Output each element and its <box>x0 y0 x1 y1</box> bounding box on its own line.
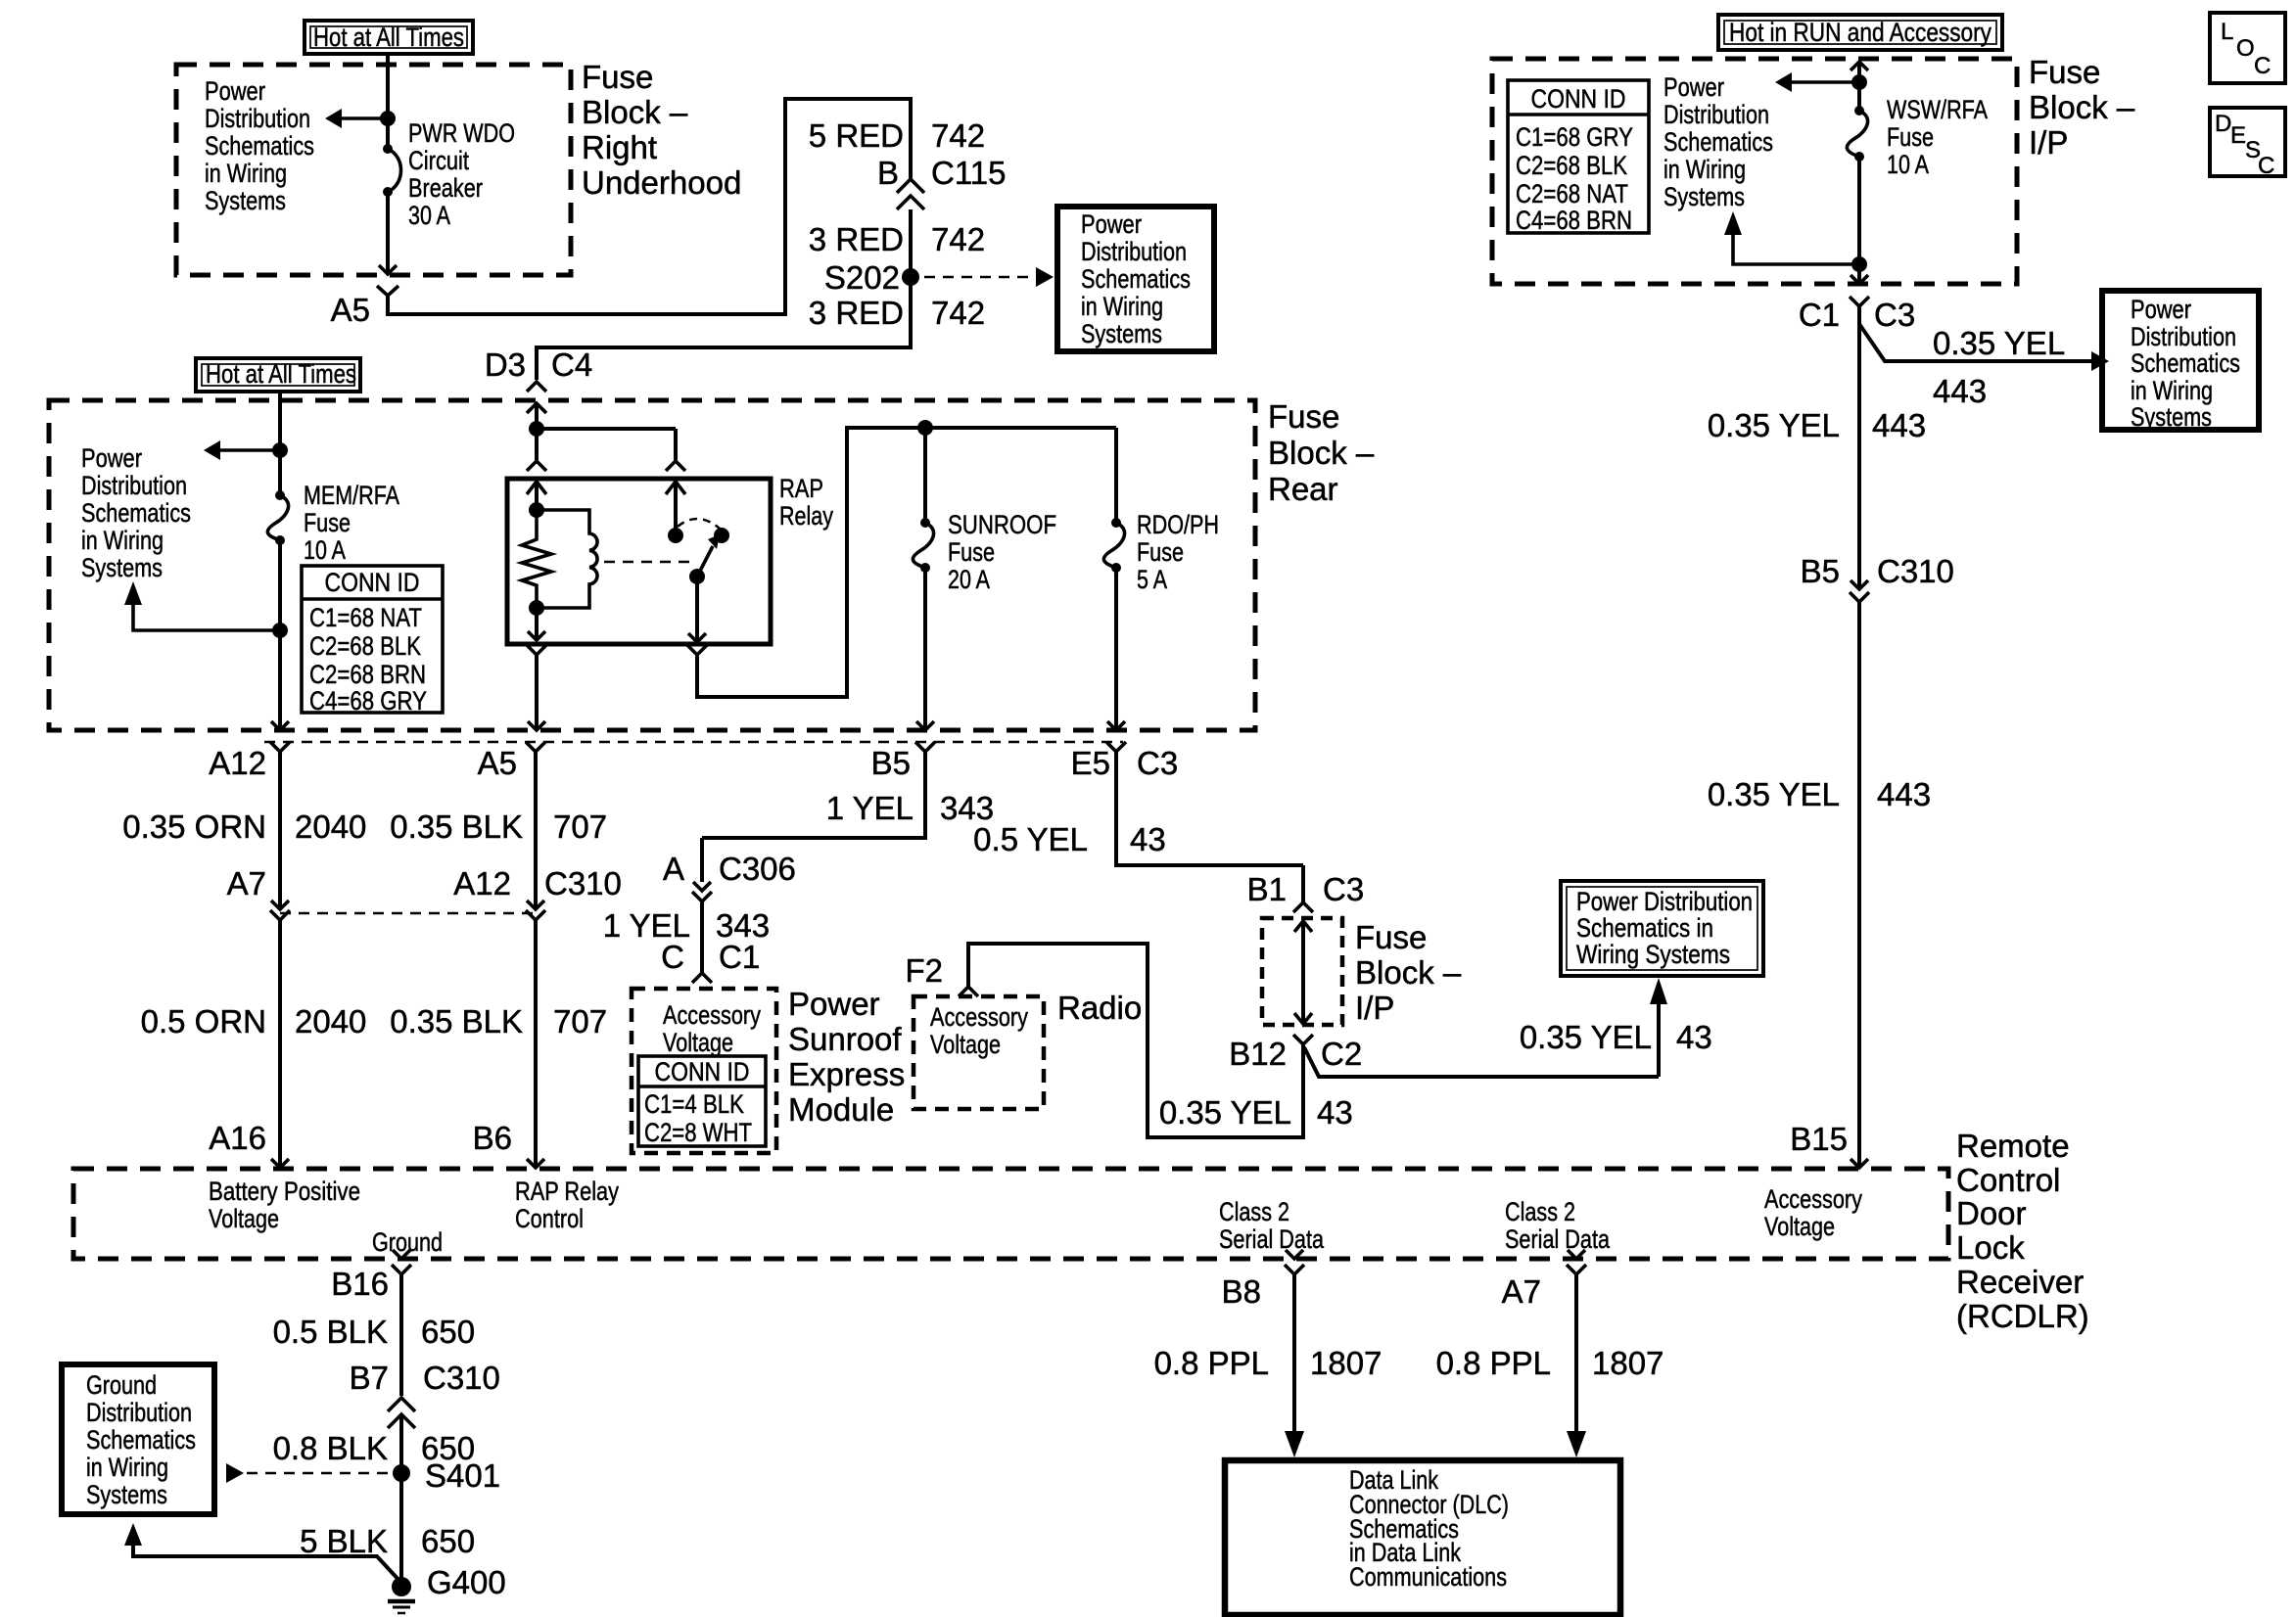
wire: rail down to RDO/PH fuse <box>1114 428 1118 523</box>
dashed box: Power Sunroof Express Module <box>632 989 776 1153</box>
component name: Fuse Block - I/P (small) <box>1355 919 1462 1026</box>
svg-text:Power: Power <box>2131 295 2191 324</box>
wire: junction across to switch entry <box>537 429 676 460</box>
svg-text:Schematics: Schematics <box>2131 348 2240 378</box>
svg-text:1807: 1807 <box>1592 1345 1663 1381</box>
label: RDO/PH Fuse 5 A <box>1137 510 1219 594</box>
inline connector female below B5/C310 <box>1850 592 1869 602</box>
inline connector C115 pin B (double chevron) <box>897 179 924 209</box>
svg-text:C310: C310 <box>423 1360 500 1396</box>
node: junction above relay <box>529 421 544 437</box>
svg-text:C1=68 NAT: C1=68 NAT <box>309 603 422 632</box>
relay coil exit arrow (inside box, down) <box>528 631 545 640</box>
svg-text:Fuse: Fuse <box>1355 919 1427 955</box>
svg-text:C1: C1 <box>719 939 760 975</box>
svg-text:A5: A5 <box>331 292 370 328</box>
arrowhead pointing up into reference box <box>1650 978 1667 1004</box>
wire: A7 to A16 <box>278 920 282 1167</box>
connector arrow at RCDLR pin A7 <box>1568 1250 1585 1259</box>
connector female at radio pin F2 <box>959 987 978 996</box>
svg-text:Fuse: Fuse <box>1137 537 1184 567</box>
relay switch exit arrow (inside box, down) <box>688 633 706 642</box>
svg-text:Power: Power <box>1663 72 1724 102</box>
svg-text:Fuse: Fuse <box>948 537 995 567</box>
wire: C1/C3 down to B5/C310 <box>1857 306 1861 587</box>
svg-text:Systems: Systems <box>81 553 163 582</box>
wire: A5 routing up to C115 riser <box>388 99 911 314</box>
svg-text:10 A: 10 A <box>304 535 346 565</box>
svg-text:0.35 BLK: 0.35 BLK <box>390 1003 523 1039</box>
svg-text:C2=68 NAT: C2=68 NAT <box>1516 179 1628 208</box>
connector female below A7 <box>1567 1265 1586 1274</box>
exit arrow inside small I/P box (down) <box>1294 1013 1312 1024</box>
component name: Power Sunroof Express Module <box>788 986 905 1128</box>
inline connector female below A12/C310 <box>526 910 545 920</box>
svg-text:1807: 1807 <box>1310 1345 1382 1381</box>
svg-text:C3: C3 <box>1137 745 1178 781</box>
connector female B5 <box>915 742 935 752</box>
wire: entry down to WSW/RFA fuse <box>1857 62 1861 111</box>
svg-text:S401: S401 <box>425 1457 500 1494</box>
svg-text:5 A: 5 A <box>1137 565 1167 594</box>
wire: branch left and up to arrow <box>133 605 280 630</box>
svg-text:Accessory: Accessory <box>663 1000 761 1030</box>
splice S202 <box>902 268 919 286</box>
wire: coil branch down to exit <box>535 608 539 640</box>
svg-text:Hot at All Times: Hot at All Times <box>313 23 464 52</box>
svg-text:SUNROOF: SUNROOF <box>948 510 1056 539</box>
svg-text:Voltage: Voltage <box>209 1204 279 1233</box>
svg-text:Fuse: Fuse <box>582 59 653 95</box>
svg-text:Receiver: Receiver <box>1956 1264 2084 1300</box>
svg-text:0.5 ORN: 0.5 ORN <box>141 1003 266 1039</box>
svg-text:Systems: Systems <box>86 1480 167 1509</box>
node: relay top internal junction <box>529 502 544 518</box>
ground G400 <box>392 1577 411 1596</box>
wire: relay switch output to fuse feed rail <box>697 428 1116 697</box>
svg-text:C2=8 WHT: C2=8 WHT <box>644 1118 752 1147</box>
wire: C115 down to S202 and across to D3 <box>537 209 911 380</box>
thin dashed connector row line <box>264 741 1123 744</box>
svg-text:Accessory: Accessory <box>930 1002 1028 1032</box>
wire: breaker to box exit <box>386 192 390 273</box>
svg-text:B16: B16 <box>331 1266 389 1302</box>
svg-text:C: C <box>661 939 684 975</box>
svg-text:30 A: 30 A <box>408 201 450 230</box>
svg-text:Module: Module <box>788 1091 894 1128</box>
svg-text:Block –: Block – <box>1355 954 1462 991</box>
svg-text:0.35 YEL: 0.35 YEL <box>1520 1019 1652 1055</box>
svg-text:PWR WDO: PWR WDO <box>408 118 515 148</box>
svg-text:Fuse: Fuse <box>1268 398 1339 435</box>
connector arrow at rear box exit (B5) <box>916 721 934 730</box>
svg-text:650: 650 <box>421 1523 475 1559</box>
svg-text:Fuse: Fuse <box>2029 54 2100 90</box>
CONN ID table (sunroof module) <box>638 1056 766 1147</box>
svg-text:G400: G400 <box>427 1564 506 1600</box>
svg-text:Schematics: Schematics <box>1663 127 1773 157</box>
fuse RDO/PH 5 A <box>1103 518 1124 573</box>
svg-text:Lock: Lock <box>1956 1229 2025 1266</box>
svg-text:Voltage: Voltage <box>1764 1212 1835 1241</box>
inline connector female below A7 <box>270 910 290 920</box>
svg-text:C2=68 BLK: C2=68 BLK <box>1516 151 1627 180</box>
arrowhead pointing down at DLC box <box>1285 1431 1304 1457</box>
component name: RAP Relay <box>779 474 833 531</box>
svg-text:3 RED: 3 RED <box>809 221 904 257</box>
svg-text:B8: B8 <box>1222 1273 1261 1310</box>
connector arrow at box edge (male, down) <box>379 265 397 274</box>
svg-text:O: O <box>2236 35 2255 62</box>
svg-text:B1: B1 <box>1247 871 1287 907</box>
connector female below B8 <box>1285 1265 1304 1274</box>
svg-text:1 YEL: 1 YEL <box>826 790 914 826</box>
svg-text:CONN ID: CONN ID <box>655 1057 750 1086</box>
component name: Fuse Block - Rear <box>1268 398 1375 507</box>
svg-text:A5: A5 <box>478 745 517 781</box>
svg-text:C1: C1 <box>1799 297 1840 333</box>
reference text: Power Distribution Schematics in Wiring Systems (fuse block rear) <box>81 443 191 582</box>
svg-text:Ground: Ground <box>86 1370 157 1400</box>
CONN ID table (fuse block I/P) <box>1508 80 1649 235</box>
svg-text:CONN ID: CONN ID <box>1531 84 1626 114</box>
arrowhead pointing left <box>204 440 220 460</box>
svg-text:C306: C306 <box>719 851 796 887</box>
svg-text:Hot in RUN and Accessory: Hot in RUN and Accessory <box>1729 18 1991 47</box>
arrowhead pointing down at DLC box <box>1567 1431 1586 1457</box>
connector female at module pin C1 <box>692 973 712 983</box>
node: junction at SUNROOF fuse <box>917 420 933 436</box>
svg-text:A12: A12 <box>453 865 511 901</box>
svg-text:Circuit: Circuit <box>408 146 469 175</box>
dashed box: Remote Control Door Lock Receiver <box>73 1169 1948 1259</box>
connector C4 female (up) <box>527 382 546 392</box>
svg-text:I/P: I/P <box>1355 990 1394 1026</box>
inline connector C306 female <box>692 892 712 901</box>
svg-text:A: A <box>663 851 684 887</box>
entry arrow inside small I/P box (up) <box>1294 921 1312 932</box>
svg-text:Serial Data: Serial Data <box>1219 1224 1325 1254</box>
switch arm with arrowhead <box>697 546 713 577</box>
fuse MEM/RFA 10 A <box>267 490 288 545</box>
dashed box: Fuse Block - Rear <box>49 400 1255 730</box>
arrowhead pointing up <box>124 581 142 605</box>
relay box RAP Relay <box>507 479 771 644</box>
inline connector B5/C310 male arrow <box>1851 580 1868 589</box>
svg-text:B: B <box>877 155 899 191</box>
wire: branch left to arrow <box>219 448 280 452</box>
wire: B12/C2 branch right to reference arrow <box>1304 1003 1659 1077</box>
svg-text:Distribution: Distribution <box>86 1398 192 1427</box>
relay coil entry arrow (inside box, up) <box>527 482 546 494</box>
svg-text:Block –: Block – <box>582 94 688 130</box>
svg-text:443: 443 <box>1877 776 1931 812</box>
svg-text:443: 443 <box>1872 407 1926 443</box>
svg-text:20 A: 20 A <box>948 565 990 594</box>
svg-text:Voltage: Voltage <box>663 1028 733 1057</box>
svg-text:Power: Power <box>205 76 265 106</box>
svg-text:Control: Control <box>1956 1162 2060 1198</box>
svg-text:C: C <box>2254 53 2271 79</box>
wire: D3/C4 into fuse block rear <box>535 403 539 429</box>
dashed reference arrow from S202 <box>924 276 1034 279</box>
reference box: Power Distribution Schematics in Wiring Systems (top right) <box>2102 291 2259 432</box>
svg-text:Battery Positive: Battery Positive <box>209 1177 360 1206</box>
wire: B8 down to DLC <box>1292 1274 1296 1432</box>
wire: branch left and up to arrow <box>1733 235 1859 264</box>
wire: SUNROOF fuse down to B5 exit <box>923 568 927 729</box>
label box: Hot at All Times (top left) <box>305 21 473 54</box>
circuit breaker PWR WDO 30 A <box>383 144 401 197</box>
connector A5 (female cup) <box>377 286 398 296</box>
svg-text:0.5 YEL: 0.5 YEL <box>973 821 1088 857</box>
svg-text:A7: A7 <box>227 865 266 901</box>
label box: Hot at All Times (second) <box>196 358 360 392</box>
connector C4 male arrow (up) <box>527 403 546 413</box>
connector female at relay coil entry <box>527 461 546 471</box>
legend box DESC <box>2210 108 2285 179</box>
svg-text:E: E <box>2230 122 2246 149</box>
wire: branch diagonal to reference arrow right <box>1859 324 2091 361</box>
wire: B5 down and left to C306 <box>702 752 925 838</box>
svg-text:MEM/RFA: MEM/RFA <box>304 481 399 510</box>
wire: relay coil output down to fuse block edge <box>535 655 539 729</box>
dashed box: Fuse Block - I/P (top right) <box>1492 59 2017 284</box>
coil (relay) <box>537 510 597 608</box>
fuse WSW/RFA 10 A <box>1847 106 1867 162</box>
svg-text:C3: C3 <box>1874 297 1915 333</box>
svg-text:Door: Door <box>1956 1195 2027 1231</box>
wire: Hot at All Times down to circuit breaker <box>386 54 390 147</box>
wire: entry to coil node <box>535 482 539 510</box>
svg-text:0.35 YEL: 0.35 YEL <box>1933 325 2065 361</box>
reference box: Ground Distribution Schematics in Wiring Systems <box>62 1364 214 1514</box>
svg-text:Remote: Remote <box>1956 1128 2070 1164</box>
svg-text:43: 43 <box>1317 1094 1353 1131</box>
wire: E5 down and right to B1 <box>1116 752 1303 865</box>
wire: C310 down to G400 <box>399 1414 403 1582</box>
svg-text:Distribution: Distribution <box>81 471 187 500</box>
svg-text:Schematics in: Schematics in <box>1576 913 1713 943</box>
svg-text:Block –: Block – <box>1268 435 1375 471</box>
ground symbol <box>388 1599 415 1604</box>
dashed throw arc of relay switch <box>678 519 720 529</box>
svg-text:B5: B5 <box>1801 553 1840 589</box>
inline connector C306 male arrow <box>693 882 711 891</box>
svg-text:Accessory: Accessory <box>1764 1184 1862 1214</box>
CONN ID table (fuse block rear) <box>302 566 443 716</box>
svg-text:742: 742 <box>931 221 985 257</box>
wire: branch left to arrow <box>1792 80 1859 84</box>
node: switch fixed contact (right) <box>714 528 729 543</box>
svg-text:Systems: Systems <box>1081 319 1162 348</box>
svg-text:Control: Control <box>515 1204 584 1233</box>
svg-text:A7: A7 <box>1502 1273 1541 1310</box>
svg-text:L: L <box>2221 19 2233 45</box>
svg-text:C: C <box>2258 153 2274 179</box>
svg-text:0.35 YEL: 0.35 YEL <box>1708 407 1840 443</box>
wire: switch common down to exit <box>695 577 699 642</box>
fuse SUNROOF 20 A <box>913 518 933 573</box>
module pin function: Accessory Voltage <box>663 1000 761 1057</box>
svg-text:Schematics: Schematics <box>86 1425 196 1455</box>
svg-text:Distribution: Distribution <box>1081 237 1187 266</box>
pin function: RAP Relay Control <box>515 1177 619 1233</box>
svg-text:0.5 BLK: 0.5 BLK <box>273 1314 388 1350</box>
inline connector A7 (male arrow) <box>271 901 289 909</box>
wire through small I/P box <box>1301 921 1305 1024</box>
svg-text:742: 742 <box>931 295 985 331</box>
label: SUNROOF Fuse 20 A <box>948 510 1056 594</box>
svg-text:I/P: I/P <box>2029 124 2068 161</box>
svg-text:Class 2: Class 2 <box>1219 1197 1289 1226</box>
connector female B16 <box>392 1265 411 1274</box>
connector female at B1/C3 <box>1293 902 1313 912</box>
wire: MEM/RFA fuse down to exit <box>278 540 282 729</box>
connector arrow at rear box exit (E5) <box>1107 721 1125 730</box>
svg-text:C3: C3 <box>1323 871 1364 907</box>
svg-text:C2=68 BRN: C2=68 BRN <box>309 660 426 689</box>
svg-text:Distribution: Distribution <box>1663 100 1769 129</box>
wire: switch entry to fixed contact <box>674 482 678 535</box>
wire: C310 down to B6 <box>534 920 538 1167</box>
label: PWR WDO Circuit Breaker 30 A <box>408 118 515 230</box>
svg-text:C4=68 BRN: C4=68 BRN <box>1516 206 1632 235</box>
svg-text:in Wiring: in Wiring <box>2131 376 2213 405</box>
component name: Remote Control Door Lock Receiver (RCDLR) <box>1956 1128 2089 1334</box>
inline connector A12/C310 male arrow <box>527 901 544 909</box>
svg-text:0.35 ORN: 0.35 ORN <box>122 808 266 845</box>
label: WSW/RFA Fuse 10 A <box>1887 95 1988 179</box>
svg-text:CONN ID: CONN ID <box>325 568 420 597</box>
node: branch junction above MEM/RFA <box>272 442 288 458</box>
svg-text:Right: Right <box>582 129 657 165</box>
connector female A5 (RAP relay control wire) <box>526 742 545 752</box>
reference text: Power Distribution Schematics in Wiring Systems (I/P box) <box>1663 72 1773 211</box>
node: relay bottom internal junction <box>529 600 544 616</box>
svg-text:0.8 BLK: 0.8 BLK <box>273 1430 388 1466</box>
svg-text:Serial Data: Serial Data <box>1505 1224 1611 1254</box>
svg-text:WSW/RFA: WSW/RFA <box>1887 95 1988 124</box>
svg-text:0.8 PPL: 0.8 PPL <box>1436 1345 1551 1381</box>
svg-text:C4=68 GRY: C4=68 GRY <box>309 686 427 716</box>
wire: A12 down to A7 <box>278 752 282 907</box>
svg-text:Hot at All Times: Hot at All Times <box>206 359 356 389</box>
wire: C306 to sunroof module <box>700 901 704 973</box>
arrowhead pointing up at ground distribution box <box>124 1523 142 1546</box>
pin function: Accessory Voltage (B15) <box>1764 1184 1862 1241</box>
svg-text:B15: B15 <box>1790 1121 1848 1157</box>
svg-text:in Wiring: in Wiring <box>86 1453 168 1482</box>
pin function: Battery Positive Voltage <box>209 1177 360 1233</box>
svg-text:Communications: Communications <box>1349 1562 1507 1592</box>
dashed box: Fuse Block - I/P (small) <box>1262 918 1342 1025</box>
connector female A12 <box>270 742 290 752</box>
svg-text:742: 742 <box>931 117 985 154</box>
arrowhead pointing up <box>1724 211 1742 235</box>
legend box LOC <box>2210 13 2285 83</box>
radio pin function: Accessory Voltage <box>930 1002 1028 1059</box>
connector arrow at rear box exit (A5 wire) <box>528 721 545 730</box>
node: branch junction above breaker <box>380 111 396 126</box>
svg-text:3 RED: 3 RED <box>809 295 904 331</box>
svg-text:RAP Relay: RAP Relay <box>515 1177 619 1206</box>
svg-text:in Wiring: in Wiring <box>81 526 164 555</box>
svg-text:C310: C310 <box>1877 553 1954 589</box>
wire: radio feed from B12/C2 <box>968 944 1303 1137</box>
svg-text:Power Distribution: Power Distribution <box>1576 887 1753 916</box>
svg-text:C4: C4 <box>551 346 592 383</box>
wire: B16 down to B7/C310 <box>399 1274 403 1396</box>
svg-text:Radio: Radio <box>1057 990 1142 1026</box>
splice S401 <box>393 1464 410 1482</box>
svg-text:2040: 2040 <box>295 808 366 845</box>
node: switch common pivot <box>689 569 705 584</box>
svg-text:0.35 YEL: 0.35 YEL <box>1159 1094 1291 1131</box>
connector female below relay (coil output) <box>527 645 546 655</box>
svg-text:707: 707 <box>553 1003 607 1039</box>
svg-text:Voltage: Voltage <box>930 1030 1001 1059</box>
svg-text:Fuse: Fuse <box>304 508 351 537</box>
connector arrow at rear box exit (A12 wire) <box>271 721 289 730</box>
node: switch fixed contact (left) <box>668 528 683 543</box>
wire: into fuse block I/P segment <box>1301 865 1305 902</box>
svg-text:5 BLK: 5 BLK <box>300 1523 388 1559</box>
pin function: Class 2 Serial Data (B8) <box>1219 1197 1325 1254</box>
component name: Fuse Block - Right Underhood <box>582 59 741 201</box>
svg-text:Underhood: Underhood <box>582 164 741 201</box>
svg-text:0.35 YEL: 0.35 YEL <box>1708 776 1840 812</box>
wire: Hot at All Times 2 down to MEM/RFA fuse <box>278 392 282 495</box>
label: MEM/RFA Fuse 10 A <box>304 481 399 565</box>
svg-text:43: 43 <box>1676 1019 1712 1055</box>
svg-text:F2: F2 <box>905 952 943 989</box>
node: branch junction below fuse <box>272 623 288 638</box>
reference box: Power Distribution Schematics in Wiring Systems (middle right) <box>1561 881 1763 976</box>
svg-text:Class 2: Class 2 <box>1505 1197 1575 1226</box>
svg-text:Systems: Systems <box>2131 402 2212 432</box>
svg-text:Distribution: Distribution <box>2131 322 2236 351</box>
svg-text:Power: Power <box>788 986 880 1022</box>
dashed reference arrow from S401 to ground distribution box <box>247 1472 391 1475</box>
wire: rail down to SUNROOF fuse <box>923 428 927 523</box>
resistor (relay) <box>522 510 551 608</box>
svg-text:D: D <box>2215 111 2231 137</box>
svg-text:C1=4 BLK: C1=4 BLK <box>644 1089 744 1119</box>
connector female E5/C3 <box>1106 742 1126 752</box>
arrowhead pointing left <box>1775 72 1792 92</box>
svg-text:D3: D3 <box>485 346 526 383</box>
svg-text:B12: B12 <box>1229 1036 1287 1072</box>
svg-text:Wiring Systems: Wiring Systems <box>1576 940 1730 969</box>
svg-text:C310: C310 <box>544 865 622 901</box>
svg-text:C1=68 GRY: C1=68 GRY <box>1516 122 1633 152</box>
svg-text:5 RED: 5 RED <box>809 117 904 154</box>
wire: A7 down to DLC <box>1574 1274 1578 1432</box>
wire: down to A/C306 <box>700 838 704 882</box>
connector female at B12/C2 <box>1293 1035 1313 1044</box>
reference box: Data Link Connector (DLC) Schematics in Data Link Communications <box>1225 1460 1620 1615</box>
svg-text:Sunroof: Sunroof <box>788 1021 902 1057</box>
wire: RDO/PH fuse down to E5 exit <box>1114 568 1118 729</box>
dashed mechanical link coil to switch <box>604 561 691 564</box>
entry arrow at I/P box top (up) <box>1851 62 1868 70</box>
svg-text:Schematics: Schematics <box>81 498 191 528</box>
svg-text:Systems: Systems <box>205 186 286 215</box>
svg-text:in Wiring: in Wiring <box>205 159 287 188</box>
component name: Fuse Block - I/P <box>2029 54 2135 161</box>
svg-text:B6: B6 <box>473 1120 512 1156</box>
